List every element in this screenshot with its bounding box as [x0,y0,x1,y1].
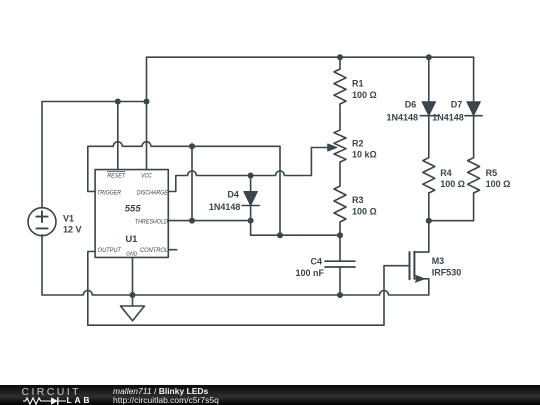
svg-text:R1: R1 [352,78,364,88]
footer url text [113,395,219,405]
wire D7 drop [473,57,475,101]
svg-text:1N4148: 1N4148 [386,112,418,122]
wire R4 bottom lead [428,193,430,221]
ground symbol [121,306,145,321]
wire output net [88,252,410,326]
svg-text:100 Ω: 100 Ω [352,90,377,100]
wire D6 top lead [428,57,430,101]
svg-text:OUTPUT: OUTPUT [98,247,122,254]
node gnd junction [130,292,136,298]
wire D4 bottom lead [250,206,252,221]
wire V1 plus to node [42,102,147,209]
wire ground rail [42,235,429,295]
svg-text:12 V: 12 V [63,224,82,234]
svg-text:100 Ω: 100 Ω [440,179,465,189]
svg-text:RESET: RESET [107,172,126,179]
svg-text:D4: D4 [227,189,239,199]
CircuitLab logo resistor-diode graphic [23,396,93,405]
node D4 anode [248,173,254,179]
wire trigger net [88,142,280,192]
wire source lead [414,278,428,280]
wire gnd pin drop [132,257,134,306]
svg-text:100 Ω: 100 Ω [486,179,511,189]
wire R5 bottom lead [429,193,474,221]
svg-text:100 nF: 100 nF [295,268,324,278]
wire R chain top lead [339,57,341,69]
wire reset drop [117,102,119,170]
node vcc tap [144,99,150,105]
diode D7 [467,102,481,116]
wire drain lead [414,221,428,252]
svg-text:CONTROL: CONTROL [140,247,168,254]
svg-text:M3: M3 [432,256,445,266]
node trigger tap [189,143,195,149]
wire trigger-threshold tap [191,146,193,220]
wire top rail [147,56,474,58]
svg-text:555: 555 [125,203,142,214]
svg-text:R2: R2 [352,139,364,149]
wire D7-R5 lead [473,116,475,158]
svg-text:D6: D6 [405,100,417,110]
svg-text:R4: R4 [440,168,452,178]
node R3-C4 join [337,232,343,238]
svg-text:C4: C4 [310,257,322,267]
node D4 cathode [248,218,254,224]
svg-text:1N4148: 1N4148 [432,112,464,122]
potentiometer R2 [334,130,346,162]
node D6 top [426,54,432,60]
diode D4 [244,192,258,206]
svg-text:THRESHOLD: THRESHOLD [135,218,168,225]
resistor R5 [468,158,480,193]
wire R2-R3 join [339,162,341,186]
resistor R4 [423,158,435,193]
resistor R1 [334,69,346,104]
op IC 555 timer U1 box [95,170,168,258]
footer title text [113,386,208,396]
svg-text:U1: U1 [125,234,138,245]
svg-text:GND: GND [126,251,137,257]
node C4 bottom [337,292,343,298]
CircuitLab logo LAB [67,395,93,405]
node R1 top [337,54,343,60]
svg-text:R5: R5 [486,168,498,178]
svg-text:IRF530: IRF530 [432,268,462,278]
capacitor C4 [325,261,355,267]
node threshold tap [189,218,195,224]
node R4-R5 join [426,218,432,224]
wire vcc riser to top rail [146,57,148,101]
wire D6-R4 lead [428,116,430,158]
diode D6 [422,102,436,116]
svg-text:V1: V1 [63,213,74,223]
wire R1-R2 join [339,104,341,130]
svg-text:R3: R3 [352,195,364,205]
wire C4 bottom lead [339,267,341,295]
svg-text:100 Ω: 100 Ω [352,207,377,217]
wire discharge to wiper [311,148,330,176]
wire discharge net [168,171,311,192]
node reset tap [115,99,121,105]
wire D4 top lead [250,176,252,192]
svg-text:TRIGGER: TRIGGER [97,189,121,196]
wire trigger net drop right [279,146,281,235]
wire control stub [168,249,176,251]
resistor R3 [334,186,346,222]
wire C4 top lead [339,235,341,261]
transistor M3 NMOS [409,252,411,279]
voltage source V1 [28,208,56,236]
svg-text:1N4148: 1N4148 [209,202,241,212]
svg-text:DISCHARGE: DISCHARGE [137,189,169,196]
wire threshold net [168,221,340,236]
CircuitLab logo CIRCUIT [22,386,81,398]
svg-text:VCC: VCC [141,172,152,179]
svg-text:D7: D7 [451,100,463,110]
wire vcc drop [146,102,148,170]
wire R3 bottom lead [339,222,341,235]
svg-text:10 kΩ: 10 kΩ [352,150,377,160]
node threshold-trigger join [277,232,283,238]
